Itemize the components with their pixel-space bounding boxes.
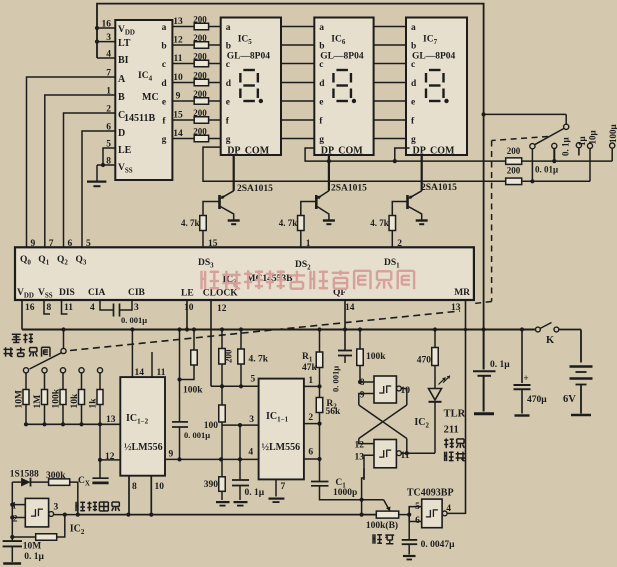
svg-text:1M: 1M (33, 395, 43, 409)
svg-text:10: 10 (184, 303, 194, 313)
svg-text:11: 11 (64, 303, 73, 313)
svg-text:4: 4 (90, 303, 95, 313)
svg-text:MC: MC (142, 92, 159, 103)
svg-text:c: c (411, 60, 415, 70)
svg-text:g: g (162, 135, 167, 145)
svg-text:9: 9 (169, 450, 174, 460)
svg-text:GL—8P04: GL—8P04 (227, 52, 271, 62)
svg-text:12: 12 (105, 452, 115, 462)
svg-text:a: a (411, 23, 416, 33)
svg-text:4. 7k: 4. 7k (370, 218, 389, 228)
svg-text:470μ: 470μ (527, 395, 547, 405)
svg-text:10: 10 (155, 482, 165, 492)
svg-text:1S1588: 1S1588 (10, 470, 39, 480)
svg-text:10k: 10k (70, 393, 80, 409)
svg-text:1μ: 1μ (577, 136, 587, 146)
svg-text:0. 0047μ: 0. 0047μ (421, 540, 456, 550)
svg-text:100k(B): 100k(B) (366, 520, 398, 531)
svg-text:2: 2 (308, 413, 313, 423)
svg-text:DP: DP (413, 146, 426, 157)
svg-text:0. 001μ: 0. 001μ (121, 315, 147, 325)
svg-text:e: e (226, 98, 230, 108)
svg-text:2SA1015: 2SA1015 (421, 183, 457, 193)
svg-text:c: c (162, 60, 166, 70)
svg-text:9: 9 (176, 92, 181, 102)
svg-text:6V: 6V (563, 394, 576, 405)
svg-text:CIB: CIB (128, 288, 146, 298)
svg-text:300k: 300k (46, 471, 66, 481)
svg-text:200: 200 (193, 71, 207, 81)
svg-text:B: B (118, 92, 125, 103)
svg-text:1: 1 (308, 376, 313, 386)
svg-text:a: a (226, 23, 231, 33)
svg-text:0. 1μ: 0. 1μ (24, 552, 44, 562)
svg-text:b: b (411, 42, 416, 52)
svg-text:+: + (524, 373, 529, 383)
svg-text:3: 3 (106, 33, 111, 43)
svg-text:d: d (319, 79, 325, 89)
svg-text:200: 200 (193, 89, 207, 99)
svg-text:½LM556: ½LM556 (262, 442, 301, 453)
svg-text:D: D (118, 128, 125, 139)
svg-text:TLR: TLR (444, 409, 466, 420)
svg-text:0. 001μ: 0. 001μ (184, 430, 210, 440)
svg-text:10M: 10M (23, 542, 42, 552)
svg-text:d: d (411, 79, 417, 89)
svg-text:0. 01μ: 0. 01μ (535, 165, 558, 175)
svg-text:4: 4 (446, 504, 451, 514)
svg-text:MR: MR (454, 288, 470, 298)
svg-text:100μ: 100μ (608, 124, 617, 143)
svg-text:200: 200 (507, 166, 521, 176)
svg-text:16: 16 (102, 20, 112, 30)
svg-text:12: 12 (173, 36, 183, 46)
svg-text:4. 7k: 4. 7k (181, 218, 200, 228)
svg-text:LE: LE (181, 289, 194, 299)
svg-text:COM: COM (245, 146, 270, 157)
svg-text:CIA: CIA (88, 288, 106, 298)
svg-text:200: 200 (193, 127, 207, 137)
svg-text:2SA1015: 2SA1015 (331, 184, 367, 194)
svg-text:DIS: DIS (59, 288, 75, 298)
svg-text:1000p: 1000p (333, 488, 357, 498)
svg-text:g: g (411, 135, 416, 145)
svg-text:a: a (319, 23, 324, 33)
svg-text:0. 1μ: 0. 1μ (490, 360, 510, 370)
svg-text:K: K (546, 335, 555, 346)
svg-text:DP: DP (321, 146, 334, 157)
svg-text:11: 11 (157, 368, 166, 378)
svg-text:100k: 100k (52, 388, 62, 408)
svg-text:100k: 100k (183, 386, 203, 396)
svg-text:200: 200 (193, 52, 207, 62)
svg-text:e: e (162, 98, 166, 108)
svg-text:6: 6 (308, 448, 313, 458)
svg-text:e: e (319, 98, 323, 108)
svg-text:LE: LE (118, 145, 132, 156)
svg-text:47k: 47k (302, 363, 318, 373)
svg-text:15: 15 (173, 111, 183, 121)
svg-text:14: 14 (135, 368, 145, 378)
svg-text:a: a (162, 23, 167, 33)
svg-text:3: 3 (134, 303, 139, 313)
svg-text:12: 12 (217, 304, 227, 314)
svg-text:390: 390 (204, 480, 219, 490)
svg-text:56k: 56k (326, 407, 342, 417)
svg-text:0. 1μ: 0. 1μ (561, 137, 571, 156)
svg-text:4: 4 (106, 50, 111, 60)
svg-text:470: 470 (417, 356, 432, 366)
svg-text:13: 13 (173, 17, 183, 27)
svg-text:C: C (118, 110, 125, 121)
svg-text:200: 200 (507, 146, 521, 156)
svg-text:8: 8 (360, 378, 365, 388)
svg-text:½LM556: ½LM556 (124, 442, 163, 453)
svg-text:COM: COM (338, 146, 363, 157)
svg-text:11: 11 (174, 54, 183, 64)
svg-text:A: A (118, 74, 126, 85)
svg-text:3: 3 (54, 503, 59, 513)
svg-text:TC4093BP: TC4093BP (407, 488, 454, 499)
svg-text:DP: DP (227, 146, 240, 157)
svg-text:0. 001μ: 0. 001μ (331, 366, 341, 392)
svg-text:13: 13 (106, 415, 116, 425)
svg-text:c: c (319, 60, 323, 70)
svg-text:g: g (226, 135, 231, 145)
svg-text:CLOCK: CLOCK (203, 289, 238, 299)
svg-text:LT: LT (118, 38, 131, 49)
svg-text:9: 9 (360, 391, 365, 401)
svg-text:4: 4 (248, 448, 253, 458)
svg-text:8: 8 (47, 303, 52, 313)
svg-text:1k: 1k (89, 398, 99, 409)
svg-text:14: 14 (345, 303, 355, 313)
svg-text:200: 200 (193, 15, 207, 25)
svg-text:16: 16 (25, 303, 35, 313)
svg-text:c: c (226, 60, 230, 70)
svg-text:5: 5 (251, 375, 256, 385)
svg-text:10: 10 (401, 386, 411, 396)
svg-text:0. 1μ: 0. 1μ (245, 488, 265, 498)
svg-text:2SA1015: 2SA1015 (237, 184, 273, 194)
svg-text:3: 3 (249, 415, 254, 425)
svg-text:4. 7k: 4. 7k (279, 218, 298, 228)
svg-text:d: d (161, 79, 167, 89)
svg-text:200: 200 (193, 33, 207, 43)
svg-text:GL—8P04: GL—8P04 (412, 52, 456, 62)
svg-text:b: b (161, 42, 166, 52)
svg-text:g: g (319, 135, 324, 145)
svg-text:e: e (411, 98, 415, 108)
svg-text:7: 7 (281, 482, 286, 492)
svg-text:14511B: 14511B (124, 113, 155, 124)
svg-text:d: d (226, 79, 232, 89)
svg-text:100: 100 (204, 421, 219, 431)
svg-text:GL—8P04: GL—8P04 (320, 52, 364, 62)
svg-text:10μ: 10μ (588, 130, 598, 144)
svg-text:b: b (226, 42, 231, 52)
svg-text:14: 14 (173, 129, 183, 139)
svg-text:13: 13 (355, 452, 365, 462)
svg-text:200: 200 (224, 349, 234, 363)
svg-text:COM: COM (430, 146, 455, 157)
svg-text:b: b (319, 42, 324, 52)
svg-text:211: 211 (444, 425, 459, 436)
svg-text:4. 7k: 4. 7k (249, 355, 269, 365)
svg-text:10: 10 (173, 73, 183, 83)
svg-text:8: 8 (132, 482, 137, 492)
svg-text:10M: 10M (15, 390, 25, 409)
svg-text:100k: 100k (366, 352, 386, 362)
svg-text:200: 200 (193, 108, 207, 118)
svg-text:BI: BI (118, 55, 129, 66)
